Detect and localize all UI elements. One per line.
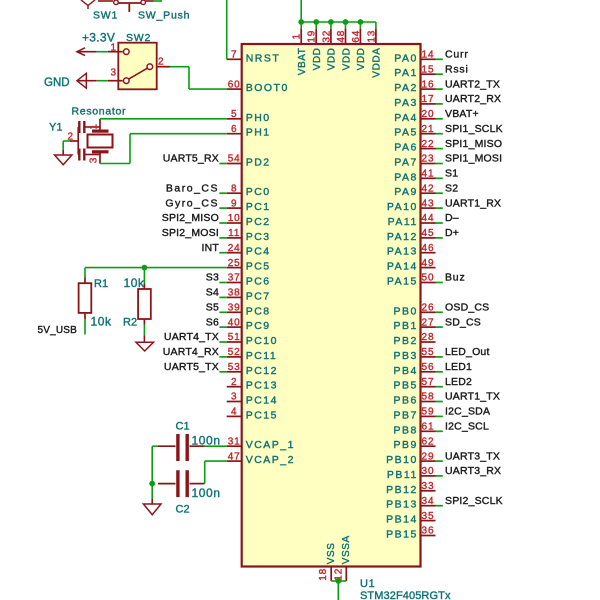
- pin VCAP_1 (31) left: [227, 436, 295, 451]
- pin PB9 (62) right: [393, 436, 435, 451]
- svg-text:S1: S1: [445, 168, 458, 180]
- svg-text:R1: R1: [94, 278, 108, 290]
- svg-text:PB11: PB11: [387, 469, 418, 481]
- svg-text:PC10: PC10: [246, 335, 278, 347]
- svg-text:VDD: VDD: [312, 48, 323, 71]
- svg-text:52: 52: [228, 347, 241, 358]
- svg-text:PC1: PC1: [246, 201, 271, 213]
- svg-text:+3.3V: +3.3V: [82, 31, 115, 45]
- svg-text:PC7: PC7: [246, 290, 271, 302]
- svg-text:37: 37: [228, 273, 241, 284]
- svg-text:PA6: PA6: [394, 142, 418, 154]
- wire C2 node to GND: [151, 484, 153, 499]
- svg-text:NRST: NRST: [246, 52, 281, 64]
- IC U1 body: [242, 44, 421, 567]
- pin PB5 (57) right: [393, 376, 472, 392]
- pin PC1 (9) left: [165, 197, 270, 213]
- svg-text:C2: C2: [176, 503, 190, 515]
- svg-text:VBAT+: VBAT+: [445, 108, 479, 120]
- svg-text:PB6: PB6: [393, 395, 417, 407]
- svg-text:10: 10: [228, 213, 241, 224]
- pin PC13 (2) left: [227, 377, 278, 392]
- svg-text:SPI1_SCLK: SPI1_SCLK: [445, 123, 503, 135]
- svg-text:PC12: PC12: [246, 365, 278, 377]
- svg-text:33: 33: [422, 481, 435, 492]
- svg-text:46: 46: [422, 243, 435, 254]
- svg-text:26: 26: [422, 303, 435, 314]
- svg-text:20: 20: [422, 109, 435, 120]
- pin PA5 (21) right: [394, 123, 503, 139]
- svg-text:I2C_SCL: I2C_SCL: [445, 421, 489, 433]
- svg-text:PB5: PB5: [393, 380, 417, 392]
- svg-text:34: 34: [422, 496, 435, 507]
- svg-text:14: 14: [422, 50, 435, 61]
- svg-text:50: 50: [422, 273, 435, 284]
- svg-text:VBAT: VBAT: [297, 48, 308, 76]
- svg-text:I2C_SDA: I2C_SDA: [445, 406, 490, 418]
- pin PA4 (20) right: [394, 108, 479, 124]
- svg-text:VCAP_2: VCAP_2: [246, 454, 295, 466]
- resistor R2: [123, 268, 151, 329]
- svg-text:PA2: PA2: [394, 82, 418, 94]
- svg-text:40: 40: [228, 317, 241, 328]
- pin PC10 (51) left: [164, 331, 278, 347]
- svg-text:30: 30: [422, 466, 435, 477]
- pin BOOT0 (60) left: [227, 79, 289, 94]
- junction VDD bus x=330.9: [328, 19, 334, 25]
- svg-text:16: 16: [422, 79, 435, 90]
- svg-text:10k: 10k: [91, 315, 113, 329]
- SW2 pin 3: [108, 68, 123, 81]
- pin PB10 (29) right: [386, 450, 500, 466]
- svg-text:LED_Out: LED_Out: [445, 346, 490, 358]
- wire resonator pin3 to PH1: [100, 134, 227, 164]
- switch SW2: [118, 32, 156, 89]
- svg-text:27: 27: [422, 317, 435, 328]
- svg-text:S3: S3: [206, 272, 219, 284]
- junction C2 left: [149, 481, 155, 487]
- svg-text:55: 55: [422, 347, 435, 358]
- svg-text:38: 38: [228, 288, 241, 299]
- svg-text:S2: S2: [445, 182, 458, 194]
- pin PC7 (38) left: [206, 287, 271, 303]
- svg-text:35: 35: [422, 511, 435, 522]
- svg-text:22: 22: [422, 139, 435, 150]
- pin PC2 (10) left: [162, 212, 271, 228]
- svg-text:PB15: PB15: [386, 529, 418, 541]
- wire GND to SW2 pin3: [97, 80, 108, 82]
- pin PH0 (5) left: [227, 109, 271, 124]
- svg-text:S6: S6: [206, 316, 219, 328]
- svg-text:PB2: PB2: [393, 335, 417, 347]
- svg-text:PB9: PB9: [393, 439, 417, 451]
- svg-text:C1: C1: [176, 420, 190, 432]
- svg-text:VDDA: VDDA: [372, 48, 383, 78]
- pin VBAT (1) top: [292, 22, 308, 75]
- svg-text:PA8: PA8: [394, 171, 418, 183]
- pin PA12 (45) right: [387, 227, 459, 243]
- pin PC12 (53) left: [164, 361, 278, 377]
- svg-text:2: 2: [158, 57, 164, 68]
- svg-text:PH1: PH1: [246, 127, 271, 139]
- wire SW1 to NRST: [226, 0, 228, 59]
- pin PB2 (28) right: [393, 332, 435, 347]
- svg-text:PA10: PA10: [387, 201, 418, 213]
- svg-text:Curr: Curr: [445, 49, 469, 61]
- svg-text:61: 61: [422, 422, 435, 433]
- label 5V_USB: [37, 325, 77, 336]
- svg-text:OSD_CS: OSD_CS: [445, 302, 489, 314]
- wire resonator pin2 to GND: [63, 141, 70, 150]
- svg-text:5: 5: [231, 109, 237, 120]
- svg-text:UART1_TX: UART1_TX: [445, 391, 500, 403]
- pin PA15 (50) right: [387, 272, 466, 288]
- svg-text:UART2_RX: UART2_RX: [445, 93, 501, 105]
- svg-text:1: 1: [89, 124, 100, 130]
- svg-text:PH0: PH0: [246, 112, 271, 124]
- svg-text:GND: GND: [44, 77, 70, 89]
- svg-text:PA3: PA3: [394, 97, 418, 109]
- svg-text:47: 47: [228, 451, 241, 462]
- svg-text:LED1: LED1: [445, 361, 472, 373]
- svg-text:PB12: PB12: [386, 484, 418, 496]
- power GND (SW2 pin3): [44, 73, 97, 89]
- power GND (R2): [136, 336, 154, 352]
- svg-text:9: 9: [231, 198, 237, 209]
- resistor R1: [79, 268, 112, 329]
- svg-text:SW_Push: SW_Push: [138, 9, 190, 21]
- svg-text:PA11: PA11: [388, 216, 418, 228]
- pin PA14 (49) right: [387, 258, 436, 273]
- svg-text:PA13: PA13: [387, 246, 418, 258]
- pin PB1 (27) right: [393, 316, 481, 332]
- svg-text:53: 53: [228, 362, 241, 373]
- pin PB14 (35) right: [386, 511, 435, 526]
- svg-text:UART5_TX: UART5_TX: [164, 361, 219, 373]
- svg-text:4: 4: [231, 407, 237, 418]
- svg-text:PB4: PB4: [393, 365, 417, 377]
- svg-text:Baro_CS: Baro_CS: [166, 182, 219, 194]
- svg-text:PB3: PB3: [393, 350, 417, 362]
- svg-text:STM32F405RGTx: STM32F405RGTx: [360, 590, 451, 600]
- pin PB6 (58) right: [393, 391, 500, 407]
- pin VSSA (12) bottom: [333, 535, 352, 581]
- svg-text:UART3_RX: UART3_RX: [445, 465, 501, 477]
- svg-text:PA0: PA0: [394, 52, 418, 64]
- power GND (resonator pin2): [55, 150, 72, 165]
- svg-text:31: 31: [228, 436, 241, 447]
- svg-text:7: 7: [231, 50, 237, 61]
- pin PC5 (25) left: [227, 258, 271, 273]
- svg-text:PA1: PA1: [394, 67, 418, 79]
- svg-text:PA4: PA4: [394, 112, 418, 124]
- wire R2 to GND: [143, 325, 145, 336]
- svg-text:41: 41: [422, 169, 435, 180]
- svg-text:SPI2_MOSI: SPI2_MOSI: [162, 227, 219, 239]
- svg-text:48: 48: [336, 30, 347, 43]
- pin VCAP_2 (47) left: [227, 451, 295, 466]
- junction VDD bus x=345.5: [343, 19, 349, 25]
- pin PH1 (6) left: [227, 124, 271, 139]
- svg-text:UART2_TX: UART2_TX: [445, 78, 500, 90]
- pin PA1 (15) right: [394, 63, 468, 79]
- svg-text:3: 3: [110, 68, 116, 79]
- svg-text:PC2: PC2: [246, 216, 271, 228]
- svg-text:UART4_RX: UART4_RX: [163, 346, 219, 358]
- svg-text:R2: R2: [123, 317, 137, 329]
- wire VSS-VSSA: [331, 580, 346, 582]
- svg-text:10k: 10k: [124, 276, 146, 290]
- svg-text:PC4: PC4: [246, 246, 271, 258]
- svg-text:18: 18: [318, 568, 329, 581]
- svg-text:24: 24: [228, 243, 241, 254]
- U1 value STM32F405RGTx: [360, 590, 451, 600]
- svg-text:VCAP_1: VCAP_1: [246, 439, 295, 451]
- svg-text:60: 60: [228, 79, 241, 90]
- svg-text:PB0: PB0: [393, 305, 417, 317]
- svg-text:44: 44: [422, 213, 435, 224]
- svg-text:51: 51: [228, 332, 241, 343]
- pin VDDA (13) top: [366, 22, 382, 78]
- svg-text:PA5: PA5: [394, 127, 418, 139]
- wire SW2 pin2 to BOOT0: [170, 67, 227, 89]
- svg-text:VSSA: VSSA: [341, 535, 352, 564]
- pin PB12 (33) right: [386, 481, 435, 496]
- svg-text:Rssi: Rssi: [445, 63, 469, 75]
- svg-text:PB10: PB10: [386, 454, 418, 466]
- junction VDD bus x=360.4: [358, 19, 364, 25]
- svg-text:SPI1_MOSI: SPI1_MOSI: [445, 153, 502, 165]
- svg-text:29: 29: [422, 451, 435, 462]
- pin PB3 (55) right: [393, 346, 489, 362]
- svg-text:25: 25: [228, 258, 241, 269]
- svg-text:21: 21: [422, 124, 435, 135]
- pin PC4 (24) left: [201, 242, 270, 258]
- junction R2 top: [142, 265, 148, 271]
- wire C1 to VCAP_1: [205, 445, 227, 447]
- svg-text:PB8: PB8: [393, 424, 417, 436]
- svg-text:SPI1_MISO: SPI1_MISO: [445, 138, 502, 150]
- svg-text:LED2: LED2: [445, 376, 472, 388]
- svg-text:PA15: PA15: [387, 276, 418, 288]
- pin PB7 (59) right: [393, 406, 490, 422]
- power +3.3V (SW2 pin1): [77, 31, 115, 56]
- pin PA8 (41) right: [394, 168, 458, 184]
- svg-text:PC14: PC14: [246, 395, 278, 407]
- pin PB11 (30) right: [387, 465, 501, 481]
- svg-text:SD_CS: SD_CS: [445, 316, 481, 328]
- svg-text:PB13: PB13: [386, 499, 418, 511]
- svg-text:54: 54: [228, 154, 241, 165]
- svg-text:59: 59: [422, 407, 435, 418]
- push button SW1: [93, 0, 190, 21]
- svg-text:100n: 100n: [192, 486, 221, 500]
- SW2 pin 1: [108, 43, 123, 54]
- svg-text:S5: S5: [206, 302, 219, 314]
- pin PB4 (56) right: [393, 361, 472, 377]
- svg-text:PC5: PC5: [246, 261, 271, 273]
- svg-text:Resonator: Resonator: [72, 106, 127, 118]
- svg-text:42: 42: [422, 183, 435, 194]
- svg-text:11: 11: [228, 228, 240, 239]
- pin PA6 (22) right: [394, 138, 502, 154]
- pin PC3 (11) left: [162, 227, 271, 243]
- wire +3.3V to SW2 pin1: [97, 51, 108, 53]
- svg-text:36: 36: [422, 526, 435, 537]
- power GND (caps): [143, 499, 161, 515]
- svg-text:INT: INT: [201, 242, 219, 254]
- svg-text:64: 64: [351, 30, 362, 43]
- junction VDD bus x=301.2: [298, 19, 304, 25]
- svg-text:PA12: PA12: [387, 231, 418, 243]
- svg-text:5V_USB: 5V_USB: [37, 325, 77, 336]
- svg-text:2: 2: [231, 377, 237, 388]
- svg-text:PB7: PB7: [393, 409, 417, 421]
- svg-text:PA7: PA7: [394, 157, 418, 169]
- svg-text:U1: U1: [360, 578, 375, 590]
- svg-text:UART3_TX: UART3_TX: [445, 450, 500, 462]
- svg-text:PC8: PC8: [246, 305, 271, 317]
- pin PA2 (16) right: [394, 78, 500, 94]
- capacitor C1: [158, 420, 221, 461]
- wire VDD bus top: [301, 21, 376, 23]
- pin PC0 (8) left: [166, 182, 271, 198]
- wire C2 to VCAP_2: [205, 461, 227, 484]
- pin PC11 (52) left: [163, 346, 277, 362]
- capacitor C2: [158, 470, 221, 515]
- svg-text:PC13: PC13: [246, 380, 278, 392]
- wire PC5 to resistors: [85, 267, 227, 269]
- pin PA13 (46) right: [387, 243, 436, 258]
- svg-text:45: 45: [422, 228, 435, 239]
- wire GND down from VSS: [337, 581, 339, 600]
- svg-text:PC6: PC6: [246, 276, 271, 288]
- svg-text:VDD: VDD: [341, 48, 352, 71]
- pin PA11 (44) right: [388, 212, 459, 228]
- svg-text:BOOT0: BOOT0: [246, 82, 289, 94]
- svg-text:56: 56: [422, 362, 435, 373]
- power +3.3V arrowhead top (cut): [81, 0, 95, 9]
- pin PC9 (40) left: [206, 316, 271, 332]
- pin VDD (32) top: [321, 22, 337, 70]
- pin PB13 (34) right: [386, 495, 503, 511]
- svg-text:19: 19: [307, 30, 318, 43]
- svg-text:32: 32: [321, 30, 332, 43]
- pin PB0 (26) right: [393, 302, 489, 318]
- pin NRST (7) left: [227, 50, 281, 65]
- svg-text:PA9: PA9: [394, 186, 418, 198]
- svg-text:3: 3: [231, 392, 237, 403]
- svg-text:PC11: PC11: [246, 350, 278, 362]
- svg-text:Buz: Buz: [445, 272, 466, 284]
- svg-text:PC0: PC0: [246, 186, 271, 198]
- svg-text:D–: D–: [445, 212, 459, 224]
- svg-text:PA14: PA14: [387, 261, 418, 273]
- svg-text:57: 57: [422, 377, 435, 388]
- svg-text:1: 1: [292, 33, 303, 39]
- svg-text:17: 17: [422, 94, 435, 105]
- svg-text:39: 39: [228, 303, 241, 314]
- svg-text:43: 43: [422, 198, 435, 209]
- U1 reference: [360, 578, 375, 590]
- svg-text:VDD: VDD: [356, 48, 367, 71]
- svg-text:PC9: PC9: [246, 320, 271, 332]
- svg-text:PB14: PB14: [386, 514, 418, 526]
- junction VDD bus x=316.2: [313, 19, 319, 25]
- pin PA9 (42) right: [394, 182, 458, 198]
- svg-text:PB1: PB1: [393, 320, 417, 332]
- pin VDD (48) top: [336, 22, 352, 70]
- pin VSS (18) bottom: [318, 542, 337, 581]
- svg-text:SPI2_SCLK: SPI2_SCLK: [445, 495, 503, 507]
- pin VDD (64) top: [351, 22, 367, 70]
- svg-text:15: 15: [422, 64, 435, 75]
- svg-text:58: 58: [422, 392, 435, 403]
- pin PA3 (17) right: [394, 93, 501, 109]
- pin PA10 (43) right: [387, 197, 501, 213]
- svg-text:SW1: SW1: [93, 9, 118, 21]
- svg-text:UART1_RX: UART1_RX: [445, 197, 501, 209]
- svg-text:VDD: VDD: [327, 48, 338, 71]
- svg-text:PC15: PC15: [246, 409, 278, 421]
- svg-text:UART4_TX: UART4_TX: [164, 331, 219, 343]
- pin PC6 (37) left: [206, 272, 271, 288]
- svg-text:49: 49: [422, 258, 435, 269]
- svg-text:8: 8: [231, 183, 237, 194]
- wire C1 left down to C2: [152, 446, 158, 483]
- svg-text:PD2: PD2: [246, 157, 271, 169]
- pin PC14 (3) left: [227, 392, 278, 407]
- svg-text:D+: D+: [445, 227, 459, 239]
- junction VSS node: [335, 578, 341, 584]
- pin PC15 (4) left: [227, 407, 278, 422]
- svg-text:SW2: SW2: [126, 32, 151, 44]
- svg-text:3: 3: [89, 157, 100, 163]
- pin PD2 (54) left: [163, 153, 271, 169]
- wire resonator pin1 to PH0: [100, 118, 227, 120]
- svg-text:UART5_RX: UART5_RX: [163, 153, 219, 165]
- svg-text:23: 23: [422, 154, 435, 165]
- svg-text:PC3: PC3: [246, 231, 271, 243]
- svg-text:Y1: Y1: [49, 122, 62, 134]
- resonator Y1: [49, 106, 126, 164]
- pin PB15 (36) right: [386, 526, 435, 541]
- wire SW1 right up: [154, 0, 162, 2]
- pin PB8 (61) right: [393, 421, 489, 437]
- pin PA7 (23) right: [394, 153, 502, 169]
- svg-text:62: 62: [422, 436, 435, 447]
- svg-text:SPI2_MISO: SPI2_MISO: [162, 212, 219, 224]
- wire VBAT to top edge: [300, 0, 302, 22]
- svg-text:6: 6: [231, 124, 237, 135]
- pin VDD (19) top: [307, 22, 323, 70]
- SW2 pin 2: [157, 57, 170, 68]
- svg-text:28: 28: [422, 332, 435, 343]
- wire R1 to 5V_USB label: [84, 319, 86, 335]
- svg-text:VSS: VSS: [326, 542, 337, 564]
- svg-text:13: 13: [366, 30, 377, 43]
- pin PC8 (39) left: [206, 302, 271, 318]
- pin PA0 (14) right: [394, 49, 468, 65]
- svg-text:Gyro_CS: Gyro_CS: [165, 197, 219, 209]
- svg-text:S4: S4: [206, 287, 219, 299]
